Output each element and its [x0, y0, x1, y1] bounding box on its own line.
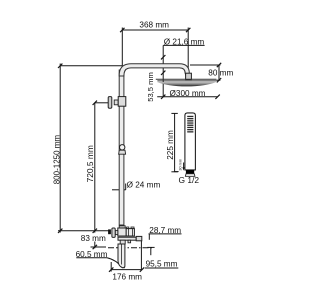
svg-text:Ø 21,6 mm: Ø 21,6 mm — [164, 38, 205, 47]
svg-text:225 mm: 225 mm — [166, 130, 175, 160]
svg-text:60,5 mm: 60,5 mm — [76, 250, 108, 259]
svg-text:G 1/2: G 1/2 — [179, 175, 200, 185]
svg-text:Ø 24 mm: Ø 24 mm — [127, 180, 161, 189]
svg-text:800-1250 mm: 800-1250 mm — [53, 135, 62, 185]
svg-text:Ø300 mm: Ø300 mm — [170, 89, 206, 98]
svg-text:83 mm: 83 mm — [81, 234, 106, 243]
svg-text:95,5 mm: 95,5 mm — [146, 260, 178, 269]
svg-text:80 mm: 80 mm — [208, 69, 233, 78]
svg-text:28,7 mm: 28,7 mm — [149, 226, 181, 235]
svg-text:176 mm: 176 mm — [112, 272, 142, 281]
svg-text:30 mm: 30 mm — [178, 159, 182, 171]
svg-text:720,5 mm: 720,5 mm — [85, 145, 95, 182]
svg-text:53,5 mm: 53,5 mm — [146, 72, 155, 102]
svg-text:368 mm: 368 mm — [139, 21, 169, 30]
